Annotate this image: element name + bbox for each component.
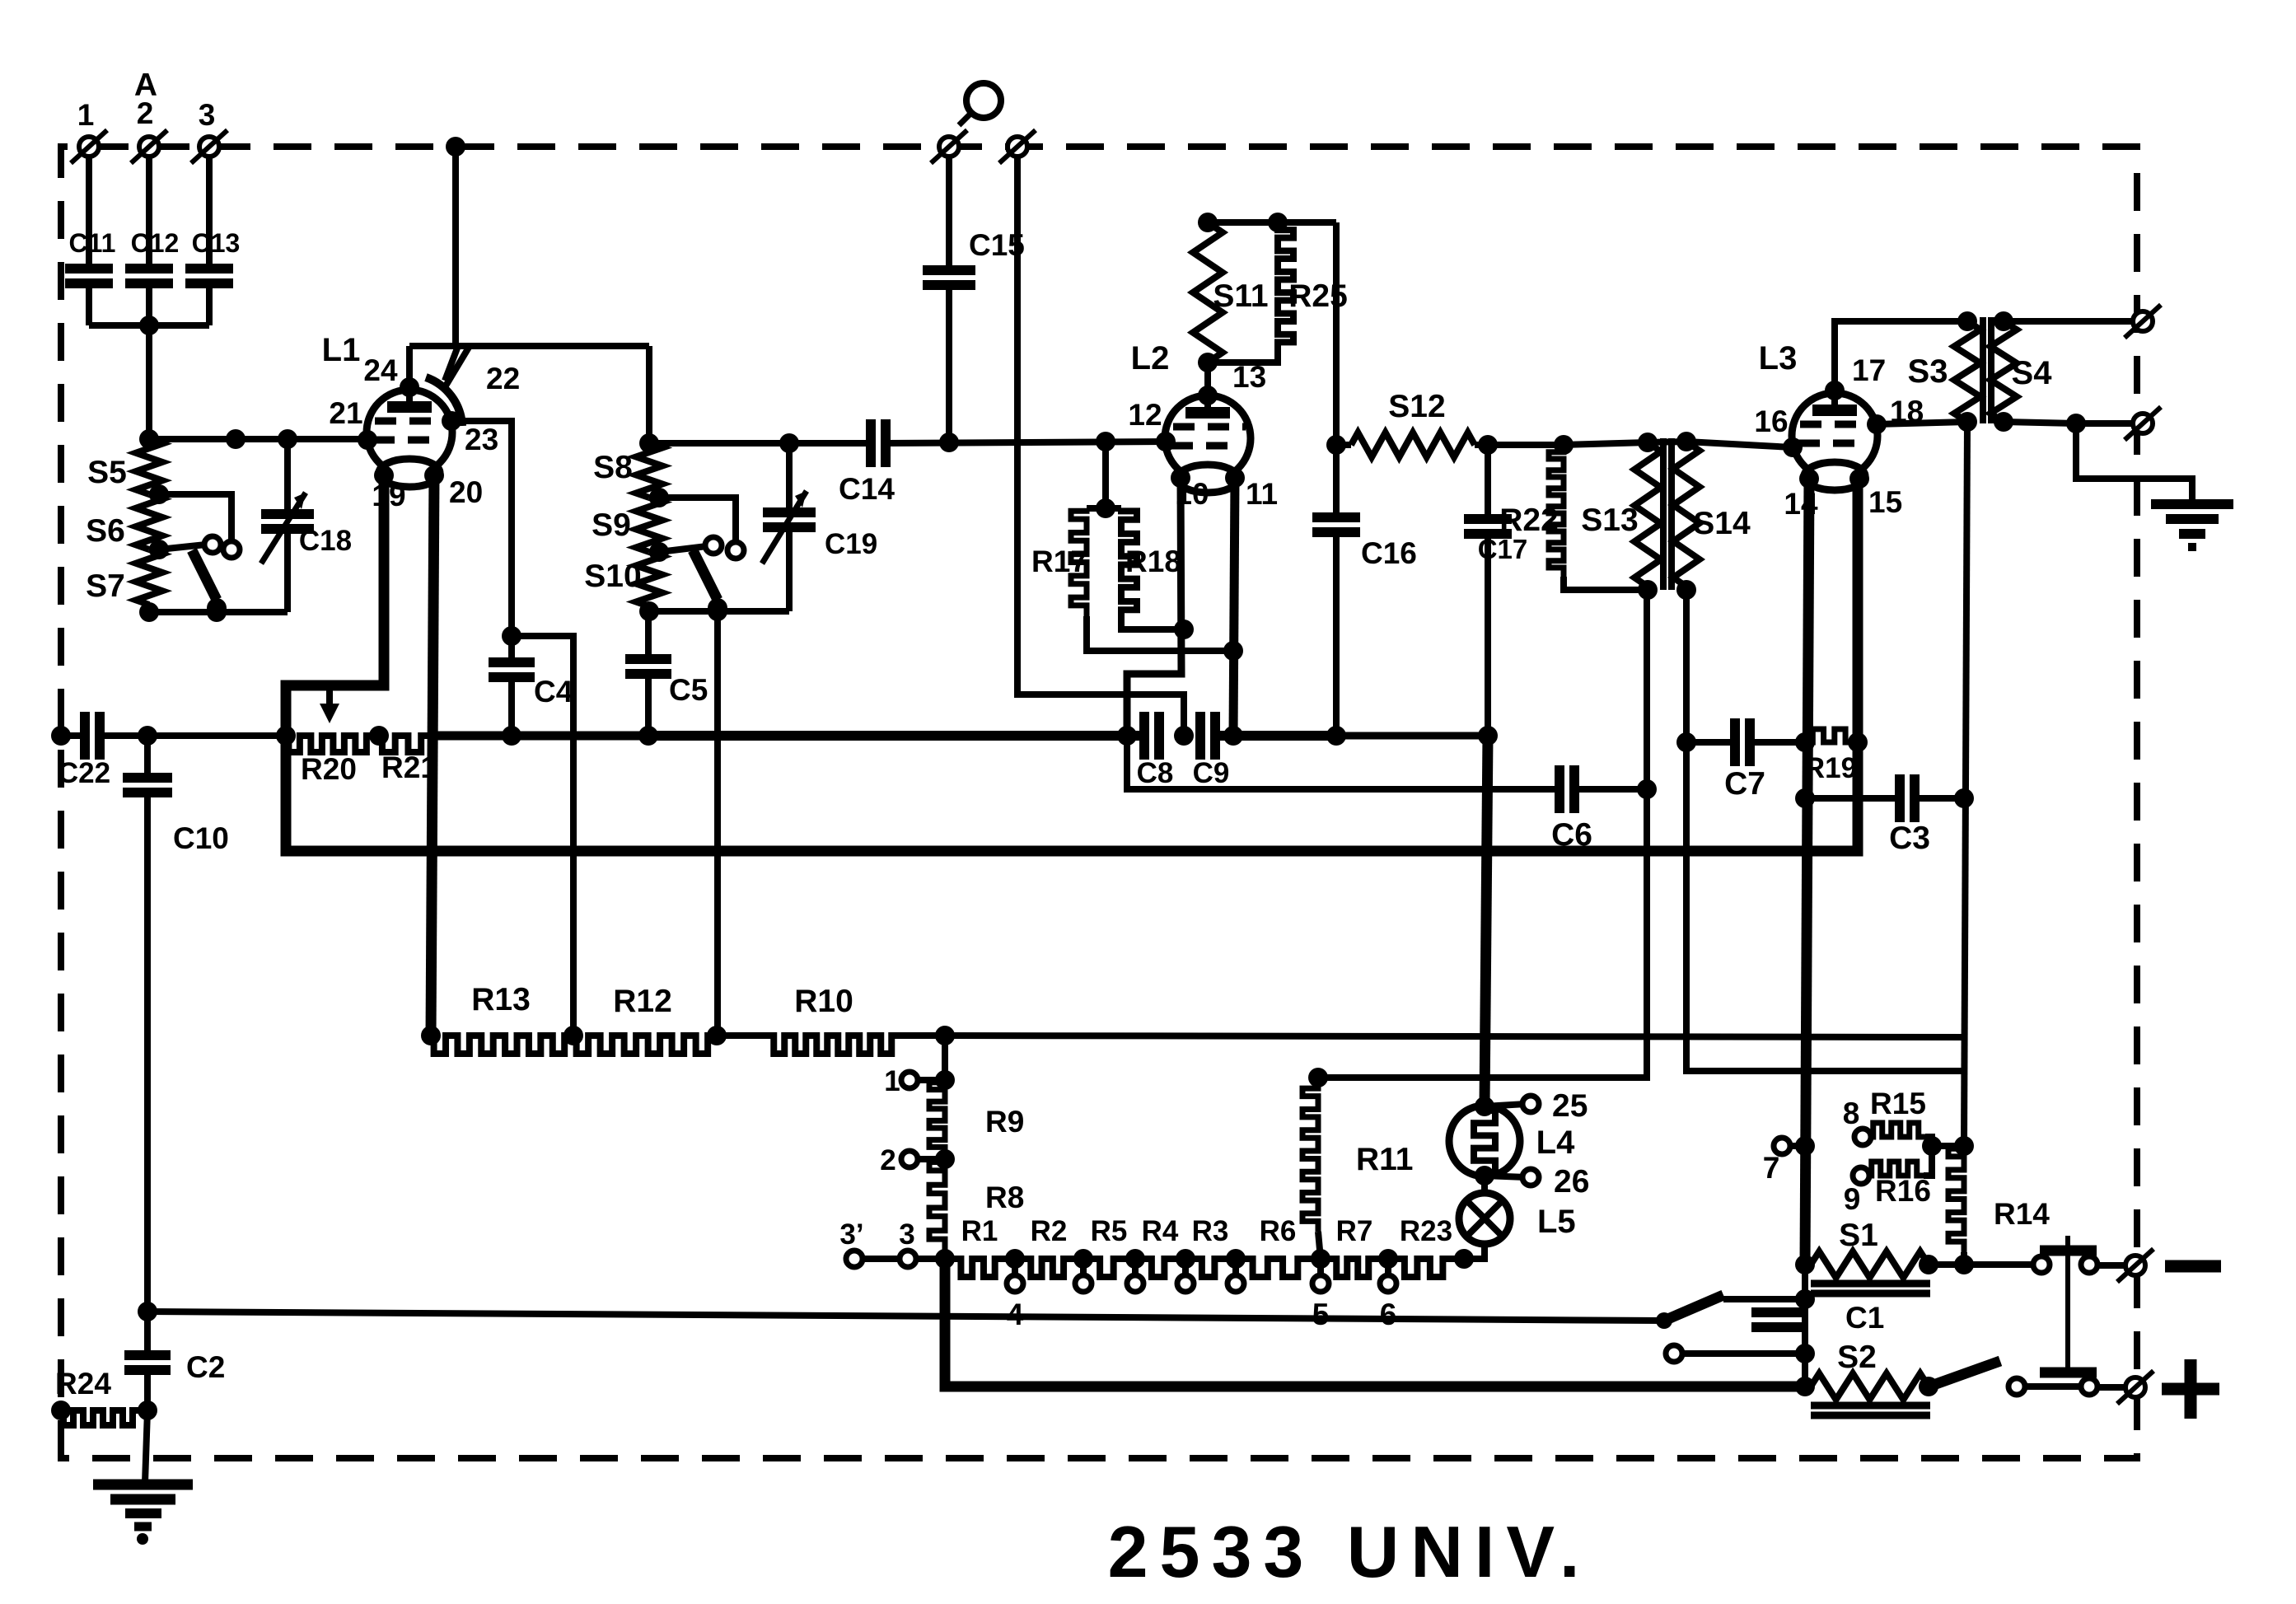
node on grid wire [226,429,245,449]
svg-text:17: 17 [1852,353,1886,387]
svg-text:R1: R1 [961,1215,998,1247]
speaker terminal top [2125,305,2161,338]
svg-text:R7: R7 [1336,1215,1373,1247]
svg-text:15: 15 [1868,485,1902,519]
wire R14node to contact [1964,1261,2033,1268]
node C8 left [1117,726,1137,746]
node at C18 top [278,429,297,449]
svg-text:R4: R4 [1142,1215,1179,1247]
switch pivot 2 [708,598,727,618]
wire long line right [945,1036,1964,1037]
node AVC line start [138,1302,157,1321]
wire pin22 lead [445,346,458,381]
node R13/R12 [563,1026,583,1045]
svg-text:21: 21 [329,396,362,430]
resistor R13 [431,982,573,1054]
svg-text:S13: S13 [1581,503,1638,538]
svg-text:S5: S5 [87,455,127,490]
node coil bottom [139,602,159,622]
wire C17node to L4 [1485,736,1488,1105]
svg-text:C9: C9 [1193,757,1230,789]
wire lever to C1 [1723,1296,1805,1302]
wire pin10 drop [1127,478,1181,736]
resistor R19 [1804,729,1857,784]
pin 16 [1754,405,1803,457]
svg-text:L2: L2 [1131,340,1170,376]
svg-text:11: 11 [1246,477,1278,511]
node R17 to pin11 line [1223,641,1243,661]
wire S4 top to speaker terminal [2004,318,2132,325]
svg-text:C4: C4 [534,675,573,708]
terminal 1 tap [884,1065,955,1097]
wire R12 to R10 [717,1032,771,1039]
chassis boundary (dashed border) [61,147,2137,1458]
pin 18 [1867,395,1924,434]
wire C18 top [284,439,291,514]
svg-text:20: 20 [449,475,483,509]
wire S14 bottom drop [1686,590,1964,1071]
ganged switch link [2065,1236,2070,1377]
wire C11 to junction [89,288,149,325]
pilot lamp L5 [1459,1193,1576,1244]
capacitor C18 (variable) [261,493,352,612]
wire heavy chain drop [945,1259,1805,1387]
node bus right end [1478,726,1498,746]
coil S5 [87,439,162,494]
wire S12 to R22 [1488,442,1564,448]
node R14 bottom [1954,1255,1974,1274]
node C1 bottom [1795,1344,1815,1363]
svg-text:1: 1 [77,98,95,132]
wire pivot1 to bottom [213,608,220,612]
capacitor C1 [1751,1301,1884,1335]
wire pin18 to S3 bottom [1877,422,1967,424]
speaker terminal bottom [2125,407,2161,440]
plus symbol [2162,1359,2219,1419]
resistor S12 [1336,389,1488,457]
capacitor C13 [185,228,240,283]
capacitor C14 [839,419,895,506]
node S14 bottom [1676,580,1696,600]
resistor R6 [1236,1215,1321,1277]
node C4 top [502,626,521,646]
svg-text:R5: R5 [1091,1215,1128,1247]
wire C7 to R19 [1750,739,1805,746]
node R5 right [1125,1249,1145,1269]
terminal 3 [191,98,227,163]
wire C10 to C2 [144,1312,151,1355]
wire heavy bottom loop [286,479,1858,851]
switch bar top [2040,1246,2097,1256]
wire bus to C8 [648,731,1144,741]
node C3 left [1795,788,1815,808]
contact S2a [2008,1378,2025,1395]
wire pin13 riser [1204,362,1211,395]
wire bus left [61,732,85,739]
svg-text:2: 2 [880,1144,895,1176]
coil S8 [593,443,662,498]
node bus left on border [51,726,71,746]
wire C14 to L2 grid [886,442,1166,443]
svg-text:C5: C5 [669,673,708,707]
switch pivot C1 [1656,1312,1672,1329]
contact a2 [705,537,722,554]
svg-text:2533 UNIV.: 2533 UNIV. [1108,1511,1592,1592]
core bars S1 [1811,1284,1930,1293]
node C9 right [1223,726,1243,746]
node S4 bottom [1994,412,2013,432]
wire pin17 riser [1835,321,1967,390]
scale lamp L4 [1449,1106,1575,1176]
resistor R24 [55,1367,147,1425]
terminal 3p [839,1218,863,1267]
wire S8top to C14 [649,440,871,447]
capacitor C7 [1686,718,1765,802]
node C4 bottom [502,726,521,746]
svg-text:2: 2 [137,96,154,130]
tap S5/S6 [149,484,169,504]
resistor R2 [1015,1215,1083,1277]
svg-text:6: 6 [1380,1298,1397,1331]
terminal 1 [71,98,107,163]
node C1 top [1795,1289,1815,1309]
wiper arrow R20 [320,685,339,723]
node R17/R18 top [1096,498,1115,518]
wire contact join [2025,1383,2081,1390]
potentiometer R20 [286,736,375,786]
wire to minus terminal [2097,1262,2125,1269]
node R19 left [1795,732,1815,752]
capacitor C5 [625,611,708,736]
pin 13 [1198,360,1266,405]
node earth branch [2066,414,2086,433]
svg-text:R13: R13 [471,982,531,1017]
node R20 left [276,726,296,746]
svg-text:22: 22 [486,362,520,395]
resistor R12 [573,984,717,1054]
wire C1 bottom [1802,1299,1808,1387]
node chain left [935,1249,955,1269]
terminal 26 [1485,1164,1589,1199]
resistor S1 [1811,1218,1929,1278]
wire P2 drop [1017,157,1184,736]
wire S4 bottom run [2004,422,2076,423]
wire R18 bottom [1121,621,1184,629]
wire terminal3 to C13 [206,157,213,265]
pin 19 [372,465,405,512]
svg-text:C1: C1 [1845,1301,1884,1335]
svg-text:C3: C3 [1889,821,1930,856]
wire R21 to C4 [431,732,512,741]
svg-text:S12: S12 [1388,389,1445,424]
node S13 top [1638,433,1658,452]
tap terminal x at 1500 [1227,1259,1244,1292]
wire S10 bottom [646,606,652,611]
tube L1 [322,332,452,487]
node S14 top [1676,432,1696,451]
svg-text:R12: R12 [613,984,672,1019]
wire top border riser [446,137,465,346]
terminal 2 tap [880,1144,955,1176]
resistor R8 [929,1159,1024,1251]
tap terminal x at 1378 [1127,1259,1143,1292]
terminal minus [2117,1249,2153,1282]
wire tap S9/S10 to contact [659,546,707,552]
wire to earth [2076,423,2192,503]
node S3 bottom [1957,412,1977,432]
wire 3' to 3 [863,1256,900,1262]
pin 11 [1225,468,1278,511]
node R19 right [1848,732,1868,752]
coil S4 [1990,321,2052,422]
node below S11 [1198,353,1218,372]
resistor R18 [1121,508,1181,621]
svg-text:C14: C14 [839,472,895,506]
node S4 top [1994,311,2013,331]
tap terminal 4 at 1232 [1007,1259,1024,1331]
wire C15 to main wire [946,290,952,442]
wire R10 to node [900,1032,945,1039]
node A label [134,68,157,103]
capacitor C2 [124,1350,225,1384]
capacitor C6 [1551,765,1592,853]
pin 22 top-cap arc [426,346,520,426]
capacitor C10 [123,736,229,855]
terminal 7 [1763,1136,1815,1185]
node C8/C9 mid [1174,726,1194,746]
capacitor C16 [1312,445,1417,736]
wire pin24 riser [406,346,413,387]
svg-text:C16: C16 [1361,536,1417,570]
tap S8/S9 [649,488,669,507]
svg-text:R11: R11 [1356,1142,1413,1177]
svg-text:C11: C11 [69,228,116,258]
coil S3 [1908,321,1980,422]
svg-text:9: 9 [1844,1182,1861,1216]
node S2 right [1919,1377,1938,1396]
capacitor C15 [923,228,1025,285]
node L4 bottom [1475,1166,1494,1185]
resistor R17 [1031,508,1087,616]
wire S3 bottom drop [1964,422,1967,1146]
switch lever S2 [1934,1361,2000,1385]
svg-text:23: 23 [465,423,498,456]
transformer core S3/S4 [1983,317,1991,423]
node S10 bottom [639,601,659,621]
node L4 top [1475,1097,1494,1116]
tap terminal 5 at 1603 [1312,1259,1330,1331]
svg-text:S1: S1 [1839,1218,1878,1253]
wire terminal to C15 [946,157,952,270]
wire C2 to R24 node [144,1373,151,1410]
wire S1 to R14 [1929,1261,1964,1268]
wire S7 bottom [146,605,152,612]
capacitor C8 [1137,712,1174,789]
node S2 left [1795,1377,1815,1396]
switch lever C1 [1664,1295,1723,1321]
node R13 left [421,1026,441,1045]
svg-text:R15: R15 [1870,1087,1926,1120]
node R22 top [1554,435,1574,455]
wire to R14 top [1932,1143,1964,1149]
node R1 right [1005,1249,1025,1269]
wire terminal2 to C12 [146,157,152,265]
pin 10 [1171,468,1209,511]
terminal P1 [931,130,967,163]
wire C13 to junction [149,288,209,325]
terminal 2 [131,96,167,163]
svg-text:R14: R14 [1994,1197,2050,1231]
wire C22 to C10 node [100,732,286,739]
capacitor C11 [65,228,115,283]
contact S1b [2081,1256,2097,1273]
node R3 right [1226,1249,1246,1269]
wire run down to S8 [646,346,652,443]
wire pivot2 down to R12/R10 [714,611,721,1036]
pin 21 [329,396,377,450]
capacitor C17 [1464,445,1527,736]
svg-text:S7: S7 [86,568,125,604]
svg-text:S6: S6 [86,513,125,549]
wire 3 to chain [916,1256,945,1262]
wire pin19 drop [286,475,384,736]
wire C16 to C17 node [1336,732,1488,740]
transformer core [1663,438,1672,590]
tap S6/S7 [149,540,169,559]
svg-text:R19: R19 [1804,752,1857,784]
node R7 right [1378,1249,1398,1269]
coil S9 [592,498,662,552]
capacitor C19 (variable) [762,443,877,611]
node C7 left [1676,732,1696,752]
coil S11 [1193,222,1269,362]
svg-text:S2: S2 [1837,1340,1877,1375]
wire to speaker terminal bottom [2076,420,2132,427]
node R6 right [1311,1249,1330,1269]
wire pin23 run [451,421,512,636]
wire to S13 top [1564,442,1648,445]
wire R24 node to ground [145,1410,147,1483]
svg-text:24: 24 [363,353,398,387]
node S12 left [1326,435,1346,455]
contact b1 [223,541,240,558]
resistor R25 [1208,222,1348,362]
coil S10 [584,552,662,606]
minus symbol [2165,1260,2221,1273]
resistor R10 [771,984,900,1054]
tap terminal x at 1439 [1177,1259,1194,1292]
node S11 top [1198,213,1218,232]
svg-text:R8: R8 [985,1181,1024,1214]
resistor R16 [1869,1146,1932,1208]
wire coil bottom run [149,602,288,622]
node under-loop junction [1637,779,1657,799]
resistor S2 [1811,1340,1929,1400]
svg-text:C18: C18 [299,525,352,557]
wire node to L1 grid [149,436,367,442]
svg-text:S9: S9 [592,507,631,543]
svg-text:L3: L3 [1759,340,1798,376]
resistor R22 [1499,450,1647,590]
resistor R14 [1948,1146,2050,1265]
svg-text:R10: R10 [794,984,853,1019]
wire S14top to L3 grid [1686,442,1793,447]
svg-text:C8: C8 [1137,757,1174,789]
svg-text:R2: R2 [1031,1215,1068,1247]
svg-text:L4: L4 [1536,1125,1575,1161]
terminal 9 [1844,1167,1869,1216]
node S1 right [1919,1255,1938,1274]
resistor R9 [929,1080,1024,1157]
svg-text:R16: R16 [1875,1174,1931,1208]
node S1 left [1795,1255,1815,1274]
node S12 right [1478,435,1498,455]
node C5 bottom [638,726,658,746]
coil S14 [1673,442,1751,587]
svg-text:S3: S3 [1908,353,1948,390]
wire R11 top run [1318,590,1647,1078]
node R24 left [51,1401,71,1420]
node R20/R21 [369,726,389,746]
wire C9 to C16 [1215,731,1336,741]
node R2 right [1073,1249,1093,1269]
svg-text:C7: C7 [1724,766,1765,802]
node at coil S5 top [139,429,159,449]
tube L2 [1131,340,1251,493]
capacitor C9 [1193,712,1230,789]
capacitor C4 [489,636,573,736]
svg-text:C12: C12 [131,228,180,258]
wire L4 to L5 [1481,1176,1488,1193]
node C19 top [779,433,799,453]
wire C6 right [1574,786,1647,793]
node R24 right [138,1401,157,1420]
wire S11/R25 top run [1208,219,1336,226]
svg-text:R3: R3 [1192,1215,1229,1247]
wire C4 node to R13/R12 drop [512,636,573,1036]
resistor R7 [1321,1215,1388,1277]
pin 17 [1825,353,1886,400]
svg-text:R20: R20 [301,752,357,786]
wire AVC long line [147,1312,1664,1321]
resistor R4 [1135,1215,1185,1277]
svg-text:25: 25 [1552,1088,1588,1124]
contact a1 [204,536,221,553]
earth ground symbol [2151,504,2233,547]
resistor R21 [379,736,437,784]
svg-text:C19: C19 [825,528,877,560]
node C10 top [138,726,157,746]
wire tap S6/S7 to contact [159,545,206,549]
node R25 top [1268,213,1288,232]
terminal P2 [999,130,1036,163]
resistor R1 [945,1215,1015,1277]
contact stub [1666,1345,1805,1362]
pin 14 [1784,469,1819,521]
terminal 3 [899,1218,916,1267]
node R14 top [1954,1136,1974,1156]
junction below C12 [139,288,159,439]
switch bar bottom [2040,1368,2097,1378]
wire down to R17/R18 [1087,442,1121,508]
wire tap S5/S6 to contact [159,494,231,540]
coil S13 [1581,442,1661,587]
node grid2 wire [1096,432,1115,451]
svg-text:C13: C13 [192,228,241,258]
switch lever 1 [192,550,217,600]
node R23 right [1454,1249,1474,1269]
wire S13top to S14top [1648,442,1686,442]
